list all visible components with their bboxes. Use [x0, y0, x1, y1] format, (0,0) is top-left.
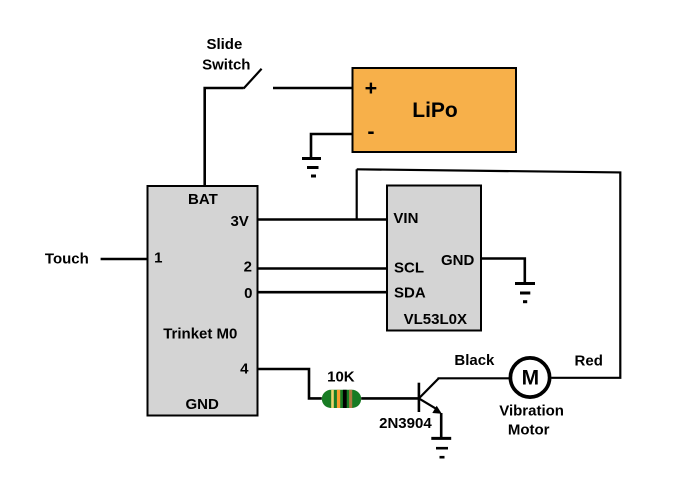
IC U1 Trinket M0 [148, 186, 258, 416]
wire: 3V node up to top rail [356, 169, 358, 219]
wire: emitter to ground [440, 413, 443, 437]
wire: collector to motor (Black lead) [438, 377, 510, 379]
ground (VL53L0X) [515, 284, 535, 302]
svg-text:Motor: Motor [508, 421, 550, 438]
IC U2 VL53L0X [387, 186, 481, 331]
wire: 3V to VIN [258, 218, 388, 221]
svg-text:BAT: BAT [188, 191, 218, 208]
slide switch SW1 lever [244, 69, 262, 89]
svg-text:Red: Red [575, 353, 603, 370]
wire: LiPo - terminal to ground [311, 134, 353, 158]
wire: pin 2 to SCL [258, 267, 388, 270]
svg-text:10K: 10K [327, 369, 355, 386]
battery BT1 LiPo [353, 68, 517, 152]
svg-text:Switch: Switch [202, 57, 250, 74]
wire: Touch to pin 1 [101, 258, 148, 261]
wire: switch to LiPo + terminal [273, 87, 353, 90]
svg-text:LiPo: LiPo [412, 99, 458, 122]
svg-text:2N3904: 2N3904 [379, 415, 432, 432]
svg-text:Vibration: Vibration [499, 402, 564, 419]
collector lead [419, 379, 439, 399]
svg-text:M: M [522, 367, 540, 390]
svg-text:+: + [365, 76, 378, 100]
svg-text:VIN: VIN [393, 210, 418, 227]
svg-text:Trinket M0: Trinket M0 [163, 326, 237, 343]
ground (emitter) [431, 438, 451, 457]
svg-text:Black: Black [454, 352, 495, 369]
svg-text:-: - [367, 120, 374, 144]
wire: pin 0 to SDA [258, 291, 388, 294]
transistor Q1 2N3904 [419, 379, 442, 414]
ground (LiPo) [302, 159, 321, 177]
emitter lead with arrow [419, 398, 436, 408]
wire: pin 4 to resistor [258, 369, 322, 398]
svg-text:4: 4 [240, 360, 249, 377]
svg-text:2: 2 [244, 258, 252, 275]
svg-text:0: 0 [244, 285, 252, 302]
wire: VL53L0X GND to ground [481, 259, 525, 284]
svg-text:1: 1 [154, 250, 162, 267]
motor M1 vibration motor [510, 358, 549, 397]
base bar [418, 383, 421, 412]
svg-text:3V: 3V [230, 213, 248, 230]
svg-text:Touch: Touch [45, 251, 89, 268]
svg-text:SCL: SCL [394, 259, 424, 276]
svg-text:VL53L0X: VL53L0X [404, 311, 467, 328]
svg-text:GND: GND [186, 396, 220, 413]
wire: top rail right and down to motor Red lead [357, 169, 621, 377]
svg-text:Slide: Slide [206, 36, 242, 53]
svg-text:GND: GND [441, 252, 475, 269]
wire: BAT pin up to slide switch [205, 88, 244, 187]
resistor R1 10K [322, 390, 361, 408]
wire: resistor to transistor base [361, 397, 419, 400]
svg-text:SDA: SDA [394, 285, 426, 302]
